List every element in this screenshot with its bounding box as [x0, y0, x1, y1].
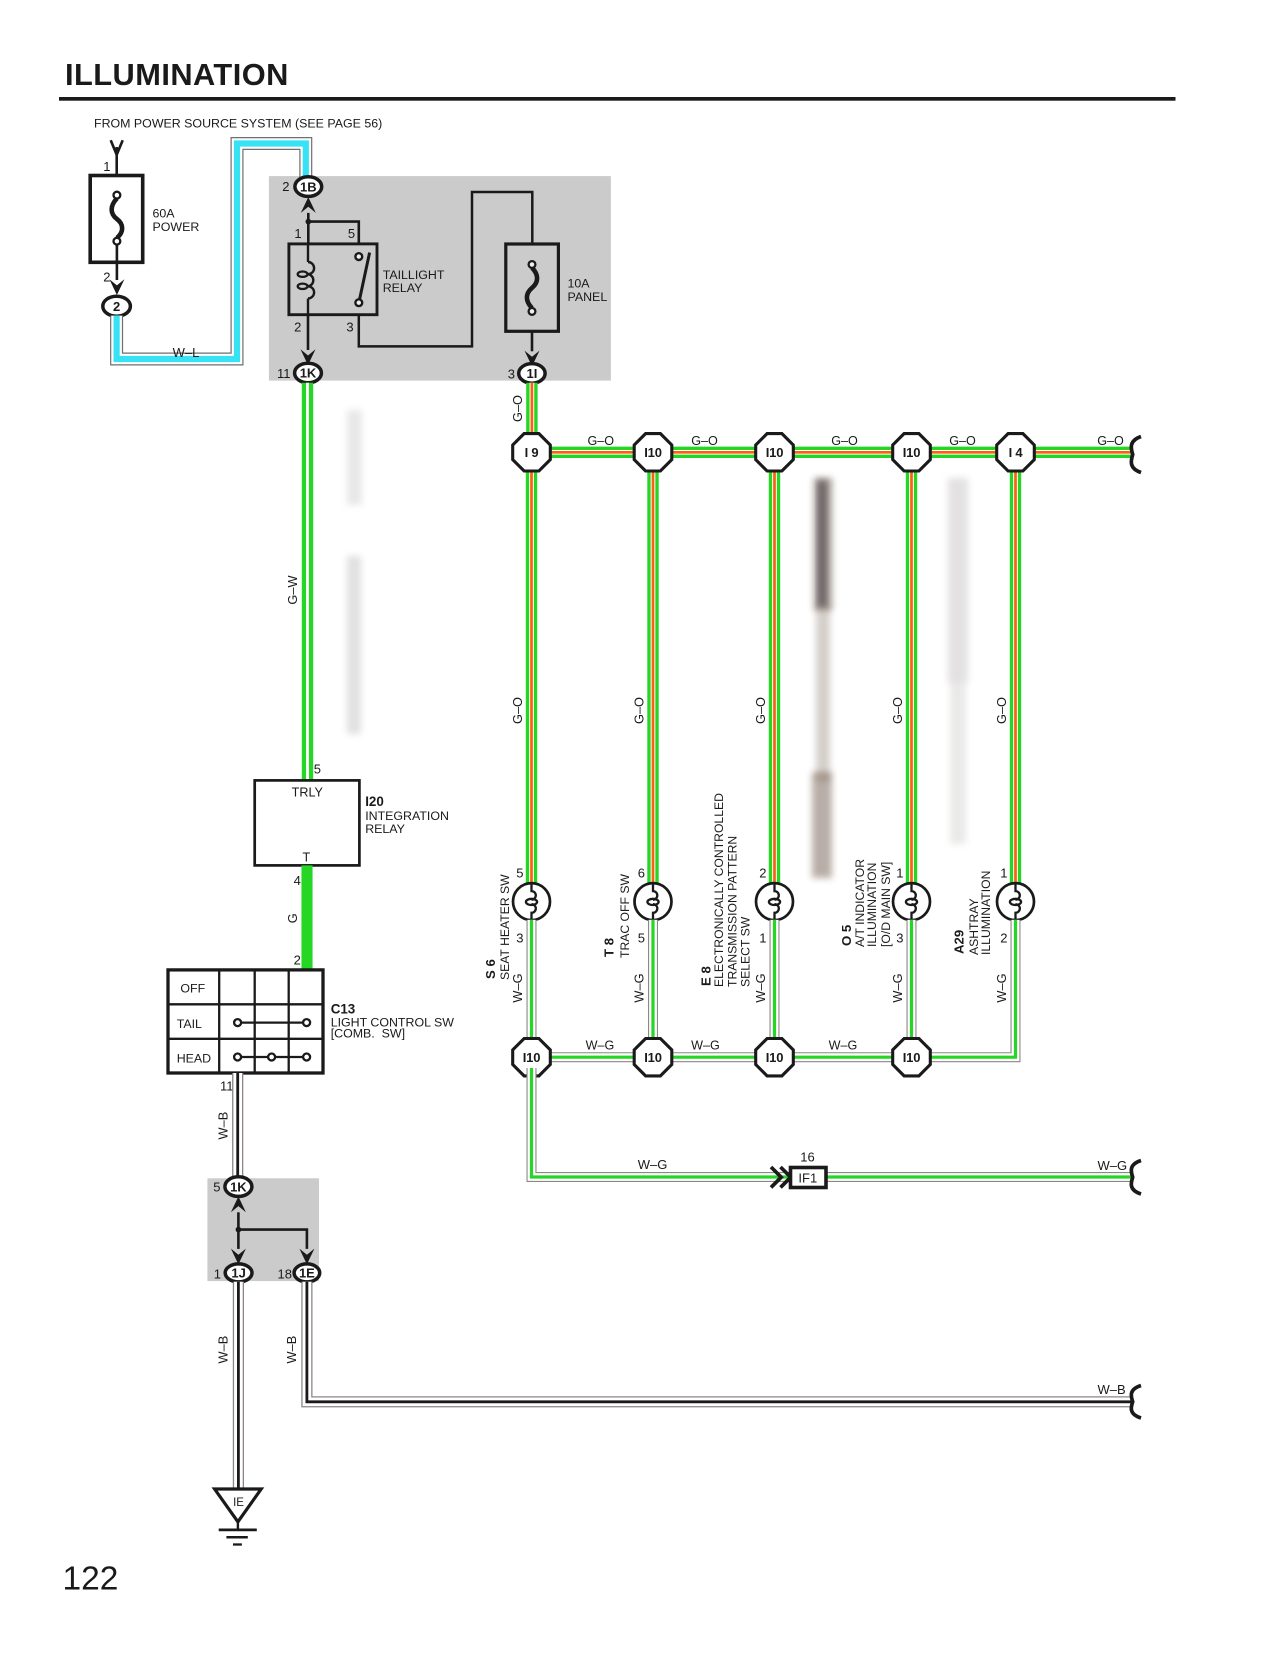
- svg-text:1: 1: [896, 866, 903, 881]
- wire W-L from node 2 to connector 1B: [117, 144, 306, 360]
- svg-text:[O/D MAIN SW]: [O/D MAIN SW]: [879, 862, 893, 947]
- wire 1K to junction: [237, 1212, 240, 1249]
- integration relay I20 box: [255, 780, 360, 865]
- connector 1I: [519, 364, 545, 384]
- svg-text:I10: I10: [523, 1050, 540, 1065]
- svg-text:W–G: W–G: [829, 1038, 858, 1052]
- svg-text:5: 5: [213, 1180, 220, 1195]
- svg-text:G–W: G–W: [285, 575, 300, 605]
- svg-text:W–G: W–G: [994, 973, 1009, 1002]
- svg-text:G–O: G–O: [753, 697, 768, 724]
- svg-text:ILLUMINATION: ILLUMINATION: [865, 863, 879, 947]
- svg-text:1K: 1K: [300, 366, 317, 381]
- svg-text:122: 122: [63, 1561, 119, 1598]
- svg-text:2: 2: [759, 866, 766, 881]
- bus wire G-O: [532, 447, 1132, 458]
- svg-text:G–O: G–O: [949, 434, 976, 448]
- svg-text:11: 11: [220, 1079, 234, 1094]
- svg-text:RELAY: RELAY: [383, 281, 423, 295]
- junction node: [236, 1227, 242, 1233]
- svg-text:G: G: [285, 913, 300, 923]
- svg-text:TRLY: TRLY: [292, 786, 324, 800]
- junction I9: [513, 434, 551, 471]
- svg-text:I20: I20: [365, 794, 384, 809]
- svg-text:A29: A29: [952, 930, 967, 954]
- TAIL row contacts: [241, 1021, 303, 1023]
- svg-text:FROM POWER SOURCE SYSTEM (SEE: FROM POWER SOURCE SYSTEM (SEE PAGE 56): [94, 116, 382, 130]
- svg-text:ILLUMINATION: ILLUMINATION: [65, 57, 289, 92]
- svg-text:RELAY: RELAY: [365, 822, 405, 836]
- svg-text:5: 5: [348, 226, 355, 241]
- junction block background (taillight relay / panel fuse): [269, 176, 611, 381]
- illumination bulb E8: [756, 883, 793, 920]
- svg-text:SEAT HEATER SW: SEAT HEATER SW: [498, 874, 512, 980]
- svg-text:TRANSMISSION PATTERN: TRANSMISSION PATTERN: [725, 836, 739, 987]
- illumination bulb A29: [997, 883, 1034, 920]
- svg-text:2: 2: [103, 270, 110, 285]
- svg-text:5: 5: [516, 866, 523, 881]
- wire fuse output: [116, 245, 119, 281]
- svg-text:I 4: I 4: [1009, 445, 1024, 460]
- junction I10 (lower): [513, 1039, 551, 1076]
- svg-text:G–O: G–O: [632, 697, 647, 724]
- svg-text:I10: I10: [766, 445, 783, 460]
- page break symbol W-G: [1131, 1161, 1141, 1195]
- connector 1E: [294, 1264, 320, 1282]
- svg-text:I10: I10: [644, 1050, 661, 1065]
- svg-text:IF1: IF1: [798, 1170, 817, 1185]
- wire G-O drop: [1010, 462, 1021, 884]
- svg-text:2: 2: [113, 299, 120, 314]
- connector IF1: [791, 1168, 827, 1188]
- svg-text:1: 1: [759, 931, 766, 946]
- wire W-B from 1E to right page break: [307, 1282, 1132, 1402]
- junction node: [306, 219, 312, 225]
- wire G-W from 1K to integration relay: [302, 383, 313, 781]
- svg-text:POWER: POWER: [153, 220, 200, 234]
- wire relay pin3 to panel fuse: [359, 192, 533, 346]
- wire 1B to relay coil: [307, 213, 310, 244]
- relay coil: [308, 244, 314, 315]
- arrow into 1B: [301, 197, 316, 213]
- svg-text:[COMB. SW]: [COMB. SW]: [331, 1027, 405, 1041]
- svg-text:1K: 1K: [230, 1179, 247, 1194]
- junction block background (lower 1K/1J/1E): [207, 1178, 319, 1281]
- junction I10: [634, 434, 672, 471]
- svg-text:I 9: I 9: [525, 445, 539, 460]
- svg-text:IE: IE: [233, 1497, 244, 1509]
- fuse 10A PANEL: [506, 244, 559, 331]
- svg-text:TAIL: TAIL: [177, 1017, 202, 1031]
- svg-text:60A: 60A: [153, 207, 176, 221]
- svg-text:5: 5: [638, 931, 645, 946]
- svg-text:W–G: W–G: [890, 973, 905, 1002]
- wire branch to relay contact pin 5: [308, 222, 359, 244]
- svg-text:W–G: W–G: [1098, 1158, 1128, 1173]
- wire W-G drop below bulb: [907, 920, 917, 1048]
- svg-text:I10: I10: [644, 445, 661, 460]
- page break symbol W-B: [1131, 1386, 1141, 1419]
- wire G-O from 1I down to junction I9: [526, 383, 537, 452]
- connector 1J: [225, 1264, 252, 1282]
- ground IE: [215, 1489, 262, 1545]
- svg-text:W–G: W–G: [510, 973, 525, 1002]
- svg-text:G–O: G–O: [510, 697, 525, 724]
- wire W-G drop below bulb: [648, 920, 658, 1048]
- svg-text:4: 4: [294, 873, 301, 888]
- svg-text:1: 1: [1000, 866, 1007, 881]
- wire G-O drop: [906, 462, 917, 884]
- svg-text:1: 1: [214, 1267, 221, 1282]
- svg-text:W–G: W–G: [638, 1157, 668, 1172]
- svg-text:5: 5: [314, 762, 321, 777]
- arrow into 1I: [525, 351, 540, 367]
- svg-text:1E: 1E: [299, 1266, 315, 1281]
- illumination bulb S6: [513, 883, 550, 920]
- svg-text:T: T: [302, 851, 310, 865]
- svg-text:1: 1: [103, 159, 110, 174]
- junction I10: [756, 434, 794, 471]
- svg-text:18: 18: [278, 1267, 292, 1282]
- junction I10 (lower): [893, 1039, 931, 1076]
- wire W-B from C13 pin 11 to 1K: [232, 1073, 243, 1177]
- svg-text:INTEGRATION: INTEGRATION: [365, 809, 449, 823]
- svg-text:11: 11: [277, 366, 291, 381]
- wire branch to 1E: [238, 1230, 307, 1249]
- junction I10 (lower): [756, 1039, 794, 1076]
- connector 1B: [295, 177, 322, 197]
- svg-text:HEAD: HEAD: [177, 1052, 211, 1066]
- svg-text:TAILLIGHT: TAILLIGHT: [383, 268, 445, 282]
- svg-text:PANEL: PANEL: [568, 290, 608, 304]
- relay contact switch: [359, 253, 369, 301]
- svg-text:2: 2: [282, 179, 289, 194]
- taillight relay box: [289, 244, 377, 315]
- arrow into node 2: [109, 279, 124, 295]
- svg-text:W–B: W–B: [216, 1336, 231, 1364]
- illumination bulb T8: [635, 883, 672, 920]
- svg-text:ILLUMINATION: ILLUMINATION: [979, 871, 993, 955]
- svg-text:G–O: G–O: [994, 697, 1009, 724]
- wire G-O drop: [647, 462, 658, 884]
- svg-text:T 8: T 8: [602, 938, 617, 957]
- wire fuse to 1I: [531, 331, 534, 351]
- arrow into lower 1K: [231, 1197, 246, 1213]
- svg-text:W–G: W–G: [691, 1038, 720, 1052]
- svg-text:W–G: W–G: [753, 973, 768, 1002]
- connector arrows into IF1: [771, 1167, 791, 1187]
- svg-text:W–G: W–G: [586, 1038, 615, 1052]
- junction I10: [893, 434, 931, 471]
- wire W-G from A29 into bus corner: [532, 920, 1016, 1057]
- page break symbol G-O: [1131, 437, 1141, 473]
- svg-text:I10: I10: [766, 1050, 783, 1065]
- svg-text:W–B: W–B: [216, 1112, 231, 1140]
- connector 1K (lower): [225, 1177, 252, 1197]
- svg-text:3: 3: [508, 367, 515, 382]
- svg-text:I10: I10: [903, 1050, 920, 1065]
- arrow into 1E: [299, 1249, 314, 1265]
- svg-text:16: 16: [800, 1150, 814, 1165]
- fuse 60A POWER: [90, 176, 143, 263]
- svg-text:G–O: G–O: [510, 395, 525, 422]
- svg-text:3: 3: [516, 931, 523, 946]
- svg-text:I10: I10: [903, 445, 920, 460]
- junction I10 (lower): [634, 1039, 672, 1076]
- svg-text:1B: 1B: [300, 179, 317, 194]
- arrow into 1K: [301, 349, 316, 365]
- svg-text:W–G: W–G: [632, 973, 647, 1002]
- svg-text:ELECTRONICALLY CONTROLLED: ELECTRONICALLY CONTROLLED: [712, 793, 726, 987]
- svg-text:C13: C13: [331, 1002, 356, 1017]
- connector 1K: [295, 363, 322, 383]
- wire G-O drop: [526, 462, 537, 884]
- illumination bulb O5: [893, 883, 930, 920]
- svg-text:G–O: G–O: [890, 697, 905, 724]
- wire W-G drop below bulb: [770, 920, 780, 1048]
- title rule: [59, 97, 1176, 101]
- wire G from integration relay to light control sw: [301, 865, 312, 970]
- node 2 (connector oval): [103, 296, 131, 316]
- svg-text:TRAC OFF SW: TRAC OFF SW: [618, 874, 632, 958]
- svg-text:G–O: G–O: [691, 434, 718, 448]
- light control switch C13 box: [168, 970, 323, 1073]
- svg-text:W–B: W–B: [1098, 1382, 1126, 1397]
- wire W-B from 1J to ground IE: [233, 1282, 244, 1488]
- svg-text:1I: 1I: [526, 366, 537, 381]
- power feed arrow from power source system: [111, 140, 123, 192]
- wire relay pin2 to 1K: [307, 315, 310, 350]
- svg-text:2: 2: [294, 953, 301, 968]
- svg-text:6: 6: [638, 866, 645, 881]
- svg-text:O 5: O 5: [839, 925, 854, 946]
- arrow into 1J: [231, 1249, 246, 1265]
- svg-text:OFF: OFF: [180, 981, 205, 995]
- wire G-O drop: [769, 462, 780, 884]
- svg-text:SELECT SW: SELECT SW: [739, 916, 753, 987]
- svg-text:1: 1: [294, 226, 301, 241]
- svg-text:S 6: S 6: [483, 959, 498, 979]
- junction I4: [997, 434, 1035, 471]
- svg-text:10A: 10A: [568, 277, 591, 291]
- svg-text:G–O: G–O: [587, 434, 614, 448]
- svg-text:G–O: G–O: [831, 434, 858, 448]
- svg-text:G–O: G–O: [1097, 434, 1124, 448]
- wire W-G from lower I10 to IF1 and page break: [532, 1068, 1132, 1177]
- wire W-G drop below bulb: [527, 920, 537, 1048]
- svg-text:1J: 1J: [231, 1266, 245, 1281]
- svg-text:W–L: W–L: [173, 345, 200, 360]
- HEAD row contacts: [241, 1056, 303, 1058]
- svg-text:2: 2: [1000, 931, 1007, 946]
- svg-text:W–B: W–B: [284, 1336, 299, 1364]
- svg-text:2: 2: [294, 320, 301, 335]
- svg-text:3: 3: [896, 931, 903, 946]
- svg-text:3: 3: [346, 320, 353, 335]
